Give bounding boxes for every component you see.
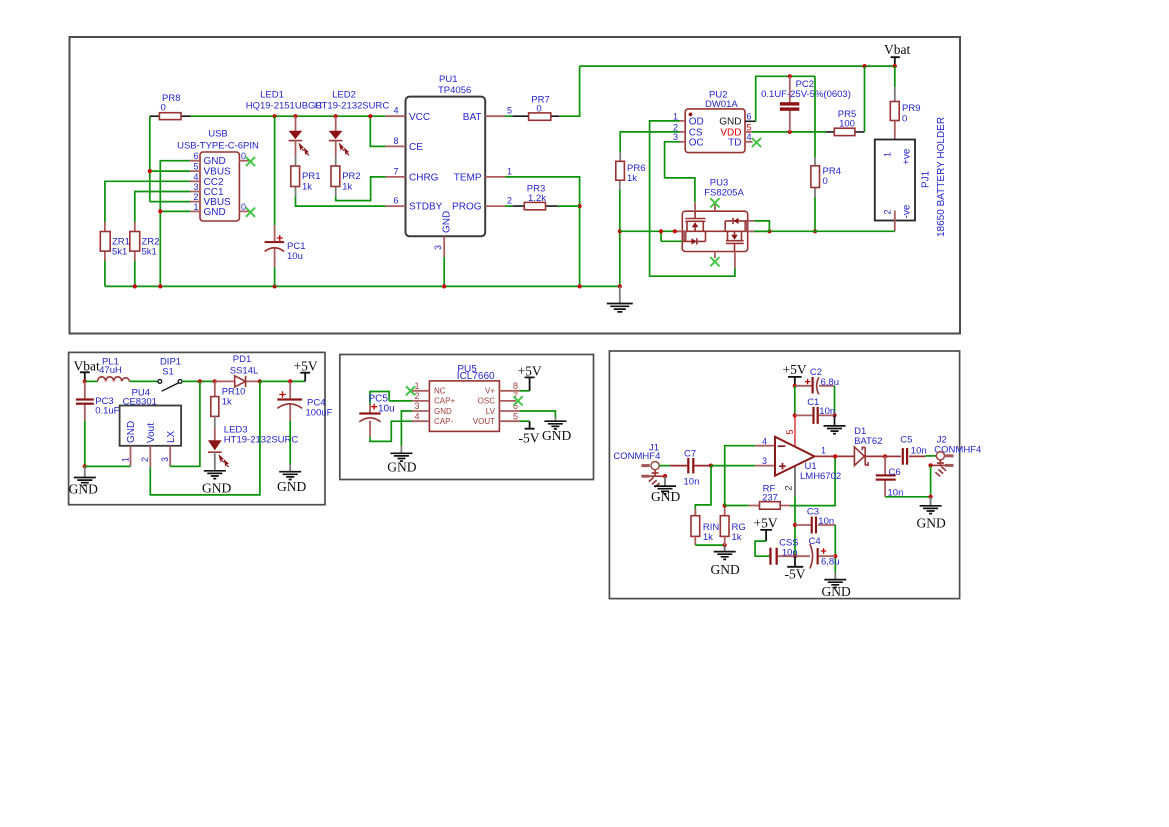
svg-text:GND: GND [917, 516, 946, 531]
svg-text:10n: 10n [684, 476, 700, 487]
connector J1 CONMHF4 [613, 442, 665, 487]
wire PR4 to bat-minus rail [814, 197, 816, 231]
svg-text:5: 5 [513, 411, 518, 421]
svg-text:1k: 1k [302, 182, 312, 193]
svg-text:2: 2 [193, 192, 198, 202]
LED LED3 HT19-2132SURC [208, 425, 298, 468]
wire PR2 to CHRG [336, 177, 386, 201]
resistor RG 1k [720, 506, 745, 546]
svg-text:CAP+: CAP+ [434, 397, 455, 406]
frame box3 charge-pump section [340, 355, 594, 480]
svg-text:CE: CE [409, 142, 423, 153]
svg-text:+5V: +5V [754, 516, 778, 531]
wire J2 shield to gnd [930, 465, 932, 496]
junction input node [709, 464, 713, 468]
ground GND LED3 [202, 452, 231, 495]
svg-text:6: 6 [393, 196, 398, 206]
svg-text:6,8u: 6,8u [821, 556, 840, 567]
junction Vbat PR5 [862, 64, 866, 68]
wire OD to gate2 [650, 121, 735, 276]
capacitor CSS 10n [769, 538, 798, 565]
ground GND RIN RG [711, 545, 740, 577]
junction pin stub left [673, 229, 677, 233]
svg-text:PR1: PR1 [302, 171, 320, 182]
wire ZR2 to gnd rail [134, 261, 136, 287]
resistor RF 237 [749, 484, 790, 510]
svg-text:1: 1 [821, 446, 826, 456]
wire PC5 bottom to CAP- [370, 421, 412, 441]
capacitor PC3 0.1uF [76, 381, 120, 420]
svg-text:NC: NC [434, 387, 446, 396]
svg-text:BAT62: BAT62 [854, 436, 882, 447]
svg-text:CHRG: CHRG [409, 173, 439, 184]
ground GND left box2 [69, 466, 98, 496]
svg-text:TD: TD [728, 137, 741, 148]
no-connect X PU3 top [710, 198, 719, 207]
ground earth below rail [607, 286, 633, 312]
IC PU4 CE8301 [120, 388, 182, 468]
svg-text:0: 0 [536, 103, 541, 114]
resistor PR5 100 [826, 109, 865, 136]
wire +in pin3 [711, 465, 755, 467]
svg-text:47uH: 47uH [99, 365, 122, 376]
svg-text:PD1: PD1 [233, 354, 251, 365]
svg-text:1k: 1k [222, 397, 232, 408]
wire PR3 to junction [558, 205, 580, 207]
junction J2 shield [928, 463, 932, 467]
svg-text:C3: C3 [807, 507, 819, 518]
frame box4 amplifier section [609, 351, 959, 599]
svg-text:1: 1 [193, 202, 198, 212]
junction GND pin1 [158, 209, 162, 213]
ground GND C3 C4 [822, 573, 851, 599]
capacitor PC5 10u [359, 392, 394, 438]
junction VCC CE [368, 114, 372, 118]
svg-text:LED1: LED1 [260, 90, 284, 101]
power Vbat [884, 42, 910, 66]
svg-text:USB-TYPE-C-6PIN: USB-TYPE-C-6PIN [177, 141, 259, 152]
svg-text:0: 0 [241, 202, 246, 212]
svg-text:-ve: -ve [902, 204, 913, 218]
svg-text:1: 1 [415, 381, 420, 391]
svg-text:3: 3 [433, 245, 443, 250]
svg-text:OD: OD [689, 117, 704, 128]
wire VBUS vertical from PR8 [149, 116, 151, 201]
svg-text:100: 100 [839, 118, 855, 129]
svg-text:BAT: BAT [463, 112, 482, 123]
junction PR10 [213, 379, 217, 383]
wire C2 C1 left rail [794, 386, 796, 416]
wire J1 to C7 [659, 465, 670, 467]
svg-text:5: 5 [785, 429, 795, 434]
svg-text:GND: GND [822, 584, 851, 599]
wire GND pin3 [401, 411, 412, 446]
svg-text:1: 1 [673, 111, 678, 121]
svg-text:PJ1: PJ1 [921, 170, 932, 188]
svg-text:V+: V+ [485, 387, 495, 396]
wire switch to PD1 [182, 380, 215, 382]
wire input to RIN [695, 466, 711, 516]
power +5V top [783, 362, 807, 386]
svg-text:10u: 10u [287, 251, 303, 262]
wire PC3 to gnd [84, 421, 86, 467]
svg-text:GND: GND [204, 207, 226, 218]
wire C3 C4 right rail to gnd [834, 525, 836, 573]
power +5V pin8 [518, 364, 542, 391]
resistor RIN 1k [691, 509, 719, 545]
wire C6 to J2 gnd [885, 496, 931, 498]
svg-text:GND: GND [711, 562, 740, 577]
capacitor C3 10n [795, 507, 835, 534]
wire gnd rail [105, 285, 620, 287]
junction rail pin3 [442, 284, 446, 288]
ground earth C1 [824, 415, 846, 433]
svg-text:+5V: +5V [518, 364, 542, 379]
svg-text:GND: GND [442, 211, 453, 233]
wire -in pin4 riser [725, 446, 755, 506]
junction S1 [659, 229, 663, 233]
resistor PR2 1k [331, 156, 361, 196]
resistor PR4 0 [811, 157, 841, 197]
wire S2 stub right [754, 230, 769, 232]
junction gnd corner box2 [83, 464, 87, 468]
svg-text:5k1: 5k1 [142, 247, 157, 258]
svg-text:3: 3 [160, 457, 170, 462]
svg-text:5k1: 5k1 [112, 247, 127, 258]
svg-text:Vbat: Vbat [74, 359, 100, 374]
wire CSS elbow [755, 541, 769, 556]
junction C1 right [832, 413, 836, 417]
svg-text:+ve: +ve [902, 148, 913, 165]
junction rail USB gnd [158, 284, 162, 288]
wire RIN to RG bottom [695, 544, 724, 546]
svg-text:+5V: +5V [783, 362, 807, 377]
svg-text:6: 6 [747, 112, 752, 122]
junction C6 gnd [929, 495, 933, 499]
svg-text:10u: 10u [378, 404, 395, 415]
diode PD1 SS14L [215, 354, 260, 387]
resistor ZR1 5k1 [100, 222, 130, 261]
wire Vbat to PL1 [85, 380, 98, 382]
svg-text:10n: 10n [819, 406, 835, 417]
LED LED1 HQ19-2151UBGC [246, 90, 323, 157]
resistor PR3 1.2k [513, 184, 558, 210]
capacitor PC1 10u [265, 116, 306, 286]
wire PL1 to switch [130, 380, 158, 382]
ground GND PC4 [277, 465, 306, 495]
junction PC4 [288, 379, 292, 383]
wire C2 C1 right rail [834, 386, 836, 416]
wire PR1 to STDBY [296, 196, 386, 206]
junction VBUS pin5 [148, 169, 152, 173]
svg-text:2: 2 [415, 391, 420, 401]
junction Vbat PC3 [83, 379, 87, 383]
no-connect X pin1 NC [406, 386, 415, 395]
capacitor C6 10n [876, 456, 904, 498]
ground GND J2 [917, 497, 946, 531]
wire CS to PR6 [620, 132, 679, 153]
svg-text:0: 0 [902, 114, 907, 125]
svg-text:4: 4 [747, 132, 752, 142]
svg-text:10n: 10n [818, 516, 834, 527]
svg-text:3: 3 [673, 132, 678, 142]
wire ZR1 to gnd rail [104, 261, 106, 287]
capacitor C1 10n [795, 397, 835, 424]
svg-text:GND: GND [719, 117, 741, 128]
wire RF row left [725, 505, 749, 507]
IC PU5 ICL7660 [412, 364, 520, 431]
svg-text:HT19-2132SURC: HT19-2132SURC [224, 434, 299, 445]
resistor PR9 0 [890, 66, 920, 151]
resistor PR6 1k [616, 153, 646, 190]
wire gnd pin1 [85, 465, 131, 467]
svg-text:OSC: OSC [478, 397, 496, 406]
svg-text:7: 7 [393, 166, 398, 176]
svg-text:PR2: PR2 [342, 171, 360, 182]
op IC PU1 TP4056 [386, 74, 512, 257]
svg-text:GND: GND [277, 479, 306, 494]
junction C3 left [793, 523, 797, 527]
svg-text:6: 6 [193, 151, 198, 161]
wire USB pin5 VBUS [150, 170, 190, 172]
svg-text:5: 5 [747, 122, 752, 132]
wire PR4 branch [814, 76, 816, 157]
svg-text:USB: USB [208, 129, 228, 140]
wire PC4 to gnd [289, 421, 291, 465]
svg-text:0.1uF: 0.1uF [95, 406, 119, 417]
svg-text:C6: C6 [889, 467, 901, 478]
svg-text:DW01A: DW01A [705, 99, 738, 110]
connector J2 CONMHF4 [931, 434, 982, 476]
svg-text:1k: 1k [627, 173, 637, 184]
svg-text:CAP-: CAP- [434, 417, 453, 426]
svg-text:GND: GND [651, 489, 680, 504]
junction PC2 top [788, 74, 792, 78]
capacitor C5 10n [885, 435, 936, 465]
junction J1 shield [663, 474, 667, 478]
ground GND J1 [651, 476, 680, 504]
no-connect X USB shield top [246, 157, 255, 166]
wire VDD row [752, 131, 826, 133]
capacitor C4 6,8u [795, 536, 840, 569]
svg-text:VCC: VCC [409, 112, 430, 123]
svg-text:Vbat: Vbat [884, 42, 910, 57]
svg-text:0: 0 [823, 176, 828, 187]
svg-text:C4: C4 [809, 536, 821, 547]
diode D1 BAT62 [854, 426, 885, 465]
svg-text:2: 2 [883, 209, 893, 214]
svg-text:1: 1 [883, 152, 893, 157]
wire S1 tap [660, 231, 662, 241]
junction +5V C2 [793, 384, 797, 388]
wire USB pin2 VBUS [150, 201, 190, 203]
wire RF to feedback riser [790, 456, 835, 505]
junction Vbat PR9 [893, 64, 897, 68]
svg-text:ICL7660: ICL7660 [457, 371, 495, 382]
junction rail S2 drop [767, 229, 771, 233]
svg-text:1: 1 [507, 166, 512, 176]
svg-text:4: 4 [193, 172, 198, 182]
junction RG RF feedback [723, 503, 727, 507]
resistor PR1 1k [291, 156, 321, 196]
svg-text:2: 2 [140, 457, 150, 462]
ground GND LV [542, 418, 571, 443]
svg-text:HT19-2132SURC: HT19-2132SURC [315, 101, 390, 112]
svg-text:S1: S1 [162, 366, 174, 377]
wire PR5 to Vbat rail [864, 66, 866, 132]
svg-text:LV: LV [486, 407, 496, 416]
capacitor PC4 100uF [277, 381, 332, 421]
wire GND pin6 to PC2 net [756, 76, 815, 121]
resistor PR8 [150, 93, 191, 120]
svg-text:LED2: LED2 [332, 90, 356, 101]
power -5V pin5 [519, 421, 540, 445]
dual mosfet PU3 FS8205A [675, 177, 755, 267]
svg-text:PR9: PR9 [902, 103, 920, 114]
svg-text:1.2k: 1.2k [528, 193, 546, 204]
wire BAT to PR7 [505, 115, 513, 117]
wire PR6 to rails [619, 190, 621, 286]
no-connect X USB shield bottom [246, 208, 255, 217]
svg-text:Vout: Vout [146, 423, 157, 443]
svg-text:C7: C7 [684, 448, 696, 459]
svg-text:6,8u: 6,8u [821, 377, 840, 388]
svg-text:GND: GND [69, 482, 98, 497]
wire Vbat top rail [580, 65, 895, 67]
wire USB pin3 CC1 [135, 192, 190, 223]
svg-text:4: 4 [393, 106, 398, 116]
wire PROG to PR3 [505, 205, 513, 207]
junction VCC PC1 [273, 114, 277, 118]
svg-text:-5V: -5V [519, 431, 540, 446]
svg-text:1k: 1k [342, 182, 352, 193]
LED LED2 HT19-2132SURC [315, 90, 390, 157]
wire S1 diode line stub [661, 240, 682, 242]
wire USB pin6 GND [160, 161, 190, 287]
svg-text:TP4056: TP4056 [438, 85, 471, 96]
svg-text:OC: OC [689, 137, 704, 148]
IC PU2 DW01A [673, 90, 756, 153]
junction rail PC1 [273, 284, 277, 288]
svg-text:0: 0 [241, 151, 246, 161]
svg-text:TEMP: TEMP [454, 173, 482, 184]
svg-text:+5V: +5V [294, 359, 318, 374]
svg-text:0: 0 [161, 102, 166, 113]
junction PR4 rail [813, 229, 817, 233]
no-connect X PU3 bottom [710, 257, 719, 266]
junction PR6 bat-minus rail [618, 229, 622, 233]
wire PR7 to Vbat rail [559, 66, 579, 116]
wire S2 to rail [754, 221, 769, 231]
junction PC2 bottom [788, 130, 792, 134]
junction rail ZR2 [133, 284, 137, 288]
svg-text:5: 5 [193, 162, 198, 172]
no-connect X pin7 OSC [513, 396, 522, 405]
svg-text:CE8301: CE8301 [123, 396, 157, 407]
svg-text:C1: C1 [807, 397, 819, 408]
svg-text:3: 3 [193, 182, 198, 192]
svg-text:4: 4 [762, 436, 767, 446]
wire CE to VCC net [370, 116, 385, 146]
wire VCC top net [190, 115, 386, 117]
svg-text:GND: GND [204, 156, 226, 167]
svg-text:GND: GND [387, 460, 416, 475]
power Vbat box2 [74, 359, 100, 382]
svg-text:C5: C5 [900, 435, 912, 446]
connector PJ1 18650 battery holder [875, 117, 947, 237]
svg-text:1k: 1k [703, 532, 713, 543]
wire LX pin3 [170, 381, 200, 466]
power -5V [785, 556, 806, 581]
svg-text:PROG: PROG [452, 202, 482, 213]
svg-text:VOUT: VOUT [473, 417, 495, 426]
svg-text:3: 3 [415, 401, 420, 411]
junction C4 right [833, 554, 837, 558]
switch DIP1 S1 [158, 357, 182, 392]
junction C1 left [793, 413, 797, 417]
svg-text:18650 BATTERY HOLDER: 18650 BATTERY HOLDER [936, 117, 947, 237]
svg-text:2: 2 [784, 485, 794, 490]
svg-text:237: 237 [762, 493, 778, 504]
power +5V box2 [294, 359, 318, 382]
no-connect X TD pin4 [752, 138, 761, 147]
svg-text:3: 3 [762, 456, 767, 466]
junction D1 C6 [883, 454, 887, 458]
capacitor PC2 0.1UF [761, 76, 851, 132]
wire TEMP vertical [505, 177, 580, 287]
wire output [815, 455, 855, 457]
wire USB pin4 CC2 [105, 181, 190, 222]
junction rail TEMP [578, 284, 582, 288]
svg-text:0.1UF-25V-5%(0603): 0.1UF-25V-5%(0603) [761, 89, 851, 100]
svg-text:100uF: 100uF [306, 408, 333, 419]
junction PR6 gnd rail [618, 284, 622, 288]
wire Vout pin2 loop [150, 381, 260, 495]
capacitor C2 6,8u [795, 367, 839, 394]
frame box1 charger section [70, 37, 961, 334]
svg-text:STDBY: STDBY [409, 202, 443, 213]
junction PD1 out [258, 379, 262, 383]
wire GND pin3 to rail [443, 257, 445, 286]
ground GND pin3 [387, 446, 416, 475]
svg-text:8: 8 [513, 381, 518, 391]
resistor PR7 0 [513, 94, 560, 120]
connector USB USB-TYPE-C-6PIN [177, 129, 259, 222]
svg-text:2: 2 [673, 122, 678, 132]
svg-text:GND: GND [542, 428, 571, 443]
capacitor C7 10n [670, 448, 711, 487]
op-amp U1 LMH6702 [755, 415, 841, 496]
svg-text:HQ19-2151UBGC: HQ19-2151UBGC [246, 101, 323, 112]
junction C4 left [793, 554, 797, 558]
frame box2 boost section [69, 352, 325, 504]
svg-text:GND: GND [126, 421, 137, 443]
svg-text:CONMHF4: CONMHF4 [613, 451, 660, 462]
wire bat-minus rail [620, 230, 895, 232]
wire USB pin1 GND [160, 210, 190, 212]
svg-text:1: 1 [120, 457, 130, 462]
resistor PR10 1k [211, 381, 246, 428]
junction LX riser [198, 379, 202, 383]
junction RG bottom [723, 543, 727, 547]
svg-text:PU1: PU1 [439, 74, 457, 85]
wire OC to gate1 [665, 142, 695, 202]
svg-text:10n: 10n [911, 446, 927, 457]
svg-text:-5V: -5V [785, 566, 806, 581]
svg-text:4: 4 [415, 411, 420, 421]
wire PC5 top to CAP+ [389, 400, 412, 402]
svg-text:5: 5 [507, 106, 512, 116]
